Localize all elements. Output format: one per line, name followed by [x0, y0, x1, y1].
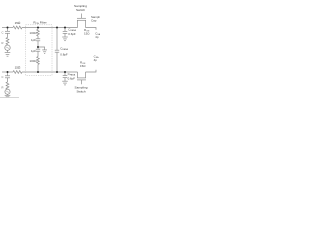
svg-text:1pF: 1pF	[31, 49, 36, 53]
svg-text:RON Filter: RON Filter	[33, 21, 46, 25]
svg-text:15Ω: 15Ω	[15, 65, 21, 69]
svg-text:C: C	[1, 31, 3, 35]
svg-text:Switch: Switch	[76, 90, 85, 94]
svg-text:4p: 4p	[94, 58, 98, 62]
svg-text:15Ω: 15Ω	[84, 32, 90, 36]
svg-text:0.6pF: 0.6pF	[68, 77, 76, 81]
svg-text:100Ω: 100Ω	[30, 59, 38, 63]
svg-text:R: R	[1, 85, 3, 89]
svg-text:15Ω: 15Ω	[80, 64, 86, 68]
svg-text:4p: 4p	[95, 35, 99, 39]
svg-text:Switch: Switch	[76, 8, 85, 12]
svg-text:R: R	[1, 41, 3, 45]
svg-text:C: C	[1, 75, 3, 79]
svg-text:Cap: Cap	[91, 19, 97, 23]
svg-text:15Ω: 15Ω	[15, 21, 21, 25]
svg-text:1pF: 1pF	[31, 38, 36, 42]
svg-text:100Ω: 100Ω	[30, 31, 38, 35]
svg-text:0.6pF: 0.6pF	[68, 32, 76, 36]
svg-text:0.8pF: 0.8pF	[60, 53, 68, 57]
